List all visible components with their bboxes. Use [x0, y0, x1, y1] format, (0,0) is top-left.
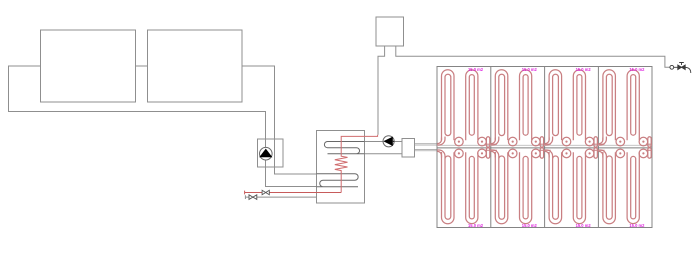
valve on cold water pipe: [249, 195, 257, 200]
pump P1 box: [258, 139, 284, 167]
svg-text:15.0 m2: 15.0 m2: [468, 223, 484, 228]
grid corridor supply line: [437, 144, 652, 146]
manifold box: [402, 139, 415, 158]
valve on red pipe: [262, 190, 269, 194]
svg-text:15.0 m2: 15.0 m2: [629, 67, 645, 72]
pump P1: [260, 147, 273, 160]
drain valve (top right): [670, 63, 691, 74]
cold water pipe: [245, 195, 316, 199]
coil bottom heat exchanger: [317, 174, 359, 187]
floor heating grid frame: [437, 67, 652, 228]
svg-text:15.0 m2: 15.0 m2: [576, 67, 592, 72]
grid divider 3: [597, 67, 599, 228]
wire collector supply (left, down to pump, into tank bottom coil): [9, 66, 318, 187]
wire vessel to drain valve: [396, 46, 670, 67]
corridor pipe stubs at divider 1: [485, 144, 498, 150]
svg-text:15.0 m2: 15.0 m2: [522, 223, 538, 228]
svg-text:15.0 m2: 15.0 m2: [576, 223, 592, 228]
heating loop cell r2c2: [491, 148, 544, 224]
manifold return double line: [415, 150, 438, 151]
heating loop cell r1c3: [545, 70, 598, 147]
pump P2: [383, 136, 394, 147]
svg-text:15.0 m2: 15.0 m2: [468, 67, 484, 72]
heating loop cell r2c1: [437, 148, 490, 224]
solar collector 1: [41, 30, 136, 102]
heating loop cell r1c4: [599, 70, 652, 147]
heating loop cell r2c4: [599, 148, 652, 224]
heating loop cell r1c2: [491, 70, 544, 147]
grid corridor return line: [437, 147, 652, 149]
corridor pipe stubs at divider 2: [538, 144, 551, 150]
tank: [317, 131, 365, 204]
wire collector link: [136, 65, 148, 67]
wire tank to pump P2: [365, 141, 403, 143]
heating loop cell r2c3: [545, 148, 598, 224]
wire manifold return to tank: [365, 153, 403, 155]
expansion vessel: [376, 17, 404, 46]
coil top heat exchanger: [324, 142, 364, 154]
dhw red pipe: [245, 191, 342, 195]
manifold supply double line: [415, 144, 438, 145]
wire vessel to tank (safety line): [378, 46, 385, 135]
corridor pipe stubs at right edge: [646, 144, 652, 150]
solar collector 2: [148, 30, 243, 102]
grid divider 1: [490, 67, 492, 228]
svg-text:15.0 m2: 15.0 m2: [522, 67, 538, 72]
svg-text:15.0 m2: 15.0 m2: [629, 223, 645, 228]
corridor pipe stubs at divider 3: [592, 144, 605, 150]
grid divider 2: [544, 67, 546, 228]
heating element spring (red): [335, 135, 378, 193]
wire collector return (right side down into tank): [242, 66, 317, 174]
heating loop cell r1c1: [437, 70, 490, 147]
